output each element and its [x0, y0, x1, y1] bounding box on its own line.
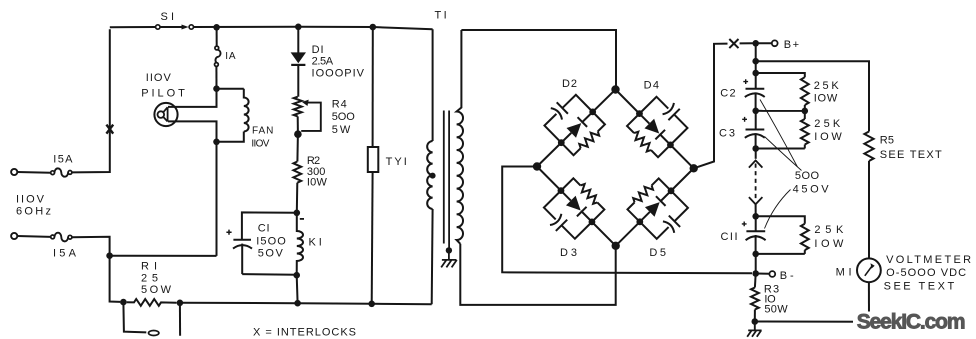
snubber resistor of D3 — [561, 178, 580, 197]
arrowhead down (omitted capacitors) — [749, 197, 763, 204]
interlock contact stub — [123, 302, 146, 332]
svg-text:5OW: 5OW — [141, 284, 172, 296]
junction — [752, 70, 759, 77]
capacitor C2 — [755, 74, 757, 88]
junction — [294, 210, 301, 217]
wire — [460, 244, 615, 305]
diode D5 — [645, 197, 665, 217]
wire — [616, 90, 694, 169]
svg-text:SEE TEXT: SEE TEXT — [884, 281, 955, 293]
junction — [106, 252, 113, 259]
node bottom junction — [612, 242, 620, 250]
junction — [213, 139, 220, 146]
svg-text:KI: KI — [309, 237, 322, 249]
leader line to C11 — [765, 190, 791, 229]
junction — [177, 300, 184, 307]
junction — [752, 40, 759, 47]
svg-text:50W: 50W — [764, 304, 788, 316]
diode arm D2 — [515, 67, 631, 182]
interlock X on B+ wire — [729, 39, 738, 48]
wire — [216, 27, 218, 46]
svg-text:MI: MI — [836, 267, 852, 279]
transformer T1 secondary — [457, 30, 463, 244]
wire — [756, 73, 805, 77]
svg-text:IOOOPIV: IOOOPIV — [312, 68, 365, 80]
svg-text:DI: DI — [312, 44, 324, 56]
interlock plug — [149, 331, 159, 336]
svg-text:25K: 25K — [814, 224, 844, 236]
junction primary tap — [430, 173, 436, 179]
svg-text:2.5A: 2.5A — [312, 56, 334, 68]
dashed wire (omitted capacitors) — [755, 164, 757, 202]
wire — [537, 89, 616, 166]
wire — [180, 302, 298, 304]
diode arm D5 — [601, 153, 717, 268]
resistor R5 — [864, 132, 873, 162]
terminal AC input top — [11, 169, 17, 175]
diode D4 — [644, 119, 664, 139]
svg-text:X = INTERLOCKS: X = INTERLOCKS — [253, 327, 356, 339]
svg-text:45OV: 45OV — [793, 184, 830, 196]
snubber resistor of D2 — [561, 136, 580, 155]
transformer core — [443, 111, 445, 244]
svg-text:IIOV: IIOV — [251, 138, 269, 149]
wire — [756, 61, 869, 131]
wire — [755, 61, 757, 73]
junction — [588, 107, 598, 117]
svg-text:VOLTMETER: VOLTMETER — [886, 254, 971, 266]
svg-text:SEE TEXT: SEE TEXT — [880, 149, 942, 161]
svg-text:5OO: 5OO — [332, 111, 355, 123]
node left junction — [533, 162, 541, 170]
svg-text:R5: R5 — [880, 135, 894, 147]
resistor R1 — [127, 299, 177, 306]
resistor 25K bleeder 2 — [804, 111, 806, 119]
wire — [740, 42, 753, 44]
wire — [756, 273, 770, 275]
wire — [168, 121, 217, 141]
wire — [756, 253, 805, 255]
junction — [752, 108, 759, 115]
wire — [461, 30, 616, 87]
wire — [110, 26, 156, 28]
svg-text:O-5OOO VDC: O-5OOO VDC — [886, 267, 966, 279]
wire — [216, 142, 218, 256]
snubber resistor of D4 — [627, 114, 646, 133]
junction — [635, 217, 645, 227]
capacitor C11 — [755, 216, 757, 231]
svg-text:SeekIC.com: SeekIC.com — [857, 311, 966, 334]
junction — [635, 109, 645, 119]
snubber capacitor of D3 — [538, 191, 592, 245]
snubber capacitor of D4 — [639, 91, 693, 145]
relay coil K1 — [297, 214, 303, 275]
wire — [72, 237, 110, 253]
terminal AC input bottom — [11, 233, 17, 239]
junction — [802, 108, 809, 115]
capacitor C1 — [233, 239, 251, 241]
junction — [752, 145, 759, 152]
svg-text:D2: D2 — [562, 78, 577, 90]
ground chassis — [441, 260, 457, 268]
lamp 110V pilot — [154, 103, 177, 126]
wire — [756, 148, 805, 150]
snubber capacitor of D5 — [640, 191, 694, 245]
svg-text:IOW: IOW — [814, 93, 838, 105]
meter M1 voltmeter — [857, 258, 881, 282]
junction — [294, 130, 302, 138]
svg-text:25K: 25K — [814, 80, 840, 92]
wire — [868, 161, 870, 258]
fuse 15A top — [51, 171, 55, 175]
terminal B+ — [772, 40, 778, 46]
watermark SeekIC.com — [853, 312, 970, 333]
wire — [296, 134, 299, 161]
diode D1 — [291, 52, 306, 63]
svg-text:PILOT: PILOT — [141, 88, 185, 100]
wire — [754, 274, 757, 288]
svg-text:25K: 25K — [814, 118, 841, 130]
wire — [179, 303, 181, 336]
arrowhead up (omitted capacitors) — [749, 160, 763, 167]
wire — [754, 322, 756, 331]
resistor R2 — [293, 162, 301, 183]
wire — [756, 42, 772, 44]
svg-text:IIOV: IIOV — [16, 194, 45, 206]
diode D2 — [567, 118, 587, 138]
svg-text:R4: R4 — [332, 99, 347, 111]
junction — [556, 138, 566, 148]
wire — [537, 167, 616, 246]
svg-text:5OO: 5OO — [795, 170, 820, 182]
resistor 25K bleeder 1 — [801, 77, 809, 105]
svg-text:IA: IA — [225, 51, 236, 62]
wire — [372, 303, 432, 305]
wire — [756, 216, 805, 224]
wire — [868, 282, 870, 322]
diode D3 — [566, 196, 586, 216]
junction — [295, 24, 302, 31]
svg-text:IIOV: IIOV — [146, 72, 172, 84]
wire — [296, 275, 299, 303]
wire — [17, 235, 50, 238]
wire — [217, 88, 244, 90]
wire — [448, 250, 450, 260]
tube TY1 — [368, 147, 379, 172]
junction — [752, 251, 759, 258]
wire — [432, 29, 434, 141]
resistor 25K bleeder 3 — [801, 224, 809, 250]
leader line to C2 — [760, 100, 798, 168]
wire — [694, 44, 728, 169]
ground chassis R3 — [747, 330, 761, 336]
diode arm D4 — [600, 67, 716, 183]
wire — [215, 66, 217, 88]
svg-text:SI: SI — [161, 11, 175, 23]
wire — [194, 27, 433, 30]
junction — [213, 24, 220, 31]
inductor FAN 110V — [244, 89, 249, 132]
wire — [168, 89, 217, 107]
fuse 1A — [215, 46, 219, 50]
node right junction — [690, 164, 698, 172]
svg-text:TI: TI — [435, 9, 447, 21]
svg-text:CII: CII — [721, 231, 738, 243]
wire — [110, 258, 121, 302]
wire — [502, 167, 752, 274]
wire — [431, 209, 434, 304]
svg-text:D4: D4 — [644, 79, 659, 91]
wire — [242, 212, 297, 239]
wire — [755, 321, 869, 323]
junction — [293, 272, 300, 279]
junction — [294, 300, 301, 307]
junction shield — [446, 247, 452, 253]
svg-text:C2: C2 — [720, 88, 735, 100]
junction — [666, 140, 676, 150]
polarity minus mark — [300, 218, 304, 220]
wire — [298, 302, 372, 305]
svg-text:CI: CI — [258, 222, 270, 234]
wire — [242, 273, 297, 276]
interlock X on left vertical — [106, 125, 113, 134]
wire — [296, 183, 299, 213]
rheostat R4 — [294, 97, 302, 117]
junction — [213, 85, 220, 92]
resistor R3 — [751, 288, 759, 310]
junction — [752, 270, 759, 277]
wire — [110, 255, 217, 257]
snubber capacitor of D2 — [539, 89, 593, 143]
switch S1 — [156, 25, 160, 29]
svg-text:I5OO: I5OO — [256, 236, 286, 248]
svg-text:5W: 5W — [332, 124, 351, 136]
wire — [755, 254, 757, 274]
wire — [297, 65, 299, 97]
wire — [297, 27, 299, 53]
wire — [755, 149, 757, 159]
diode arm D3 — [514, 151, 631, 268]
wire — [755, 43, 757, 61]
capacitor C3 — [755, 111, 757, 129]
leader line to C3 — [765, 137, 802, 171]
fuse 15A bottom — [51, 235, 55, 239]
junction — [556, 186, 566, 196]
junction — [752, 58, 759, 65]
wire — [372, 27, 374, 147]
junction — [120, 299, 127, 306]
wire — [371, 172, 374, 304]
svg-text:TYI: TYI — [386, 156, 407, 168]
junction — [752, 213, 759, 220]
wire — [616, 168, 694, 246]
svg-text:I5A: I5A — [53, 154, 73, 166]
wire — [217, 132, 244, 142]
junction — [368, 301, 375, 308]
svg-text:5OV: 5OV — [258, 247, 284, 259]
wire — [17, 171, 50, 174]
wire — [755, 204, 757, 216]
wire — [756, 110, 805, 112]
junction — [752, 318, 759, 325]
junction — [587, 217, 597, 227]
junction — [666, 186, 676, 196]
svg-text:I0W: I0W — [307, 176, 328, 188]
wire — [72, 29, 110, 172]
transformer T1 primary — [427, 141, 432, 209]
junction — [370, 24, 377, 31]
node top junction — [611, 85, 619, 93]
terminal B- — [769, 271, 775, 277]
snubber resistor of D5 — [627, 202, 646, 221]
svg-text:B-: B- — [780, 270, 794, 282]
svg-text:FAN: FAN — [252, 126, 273, 137]
